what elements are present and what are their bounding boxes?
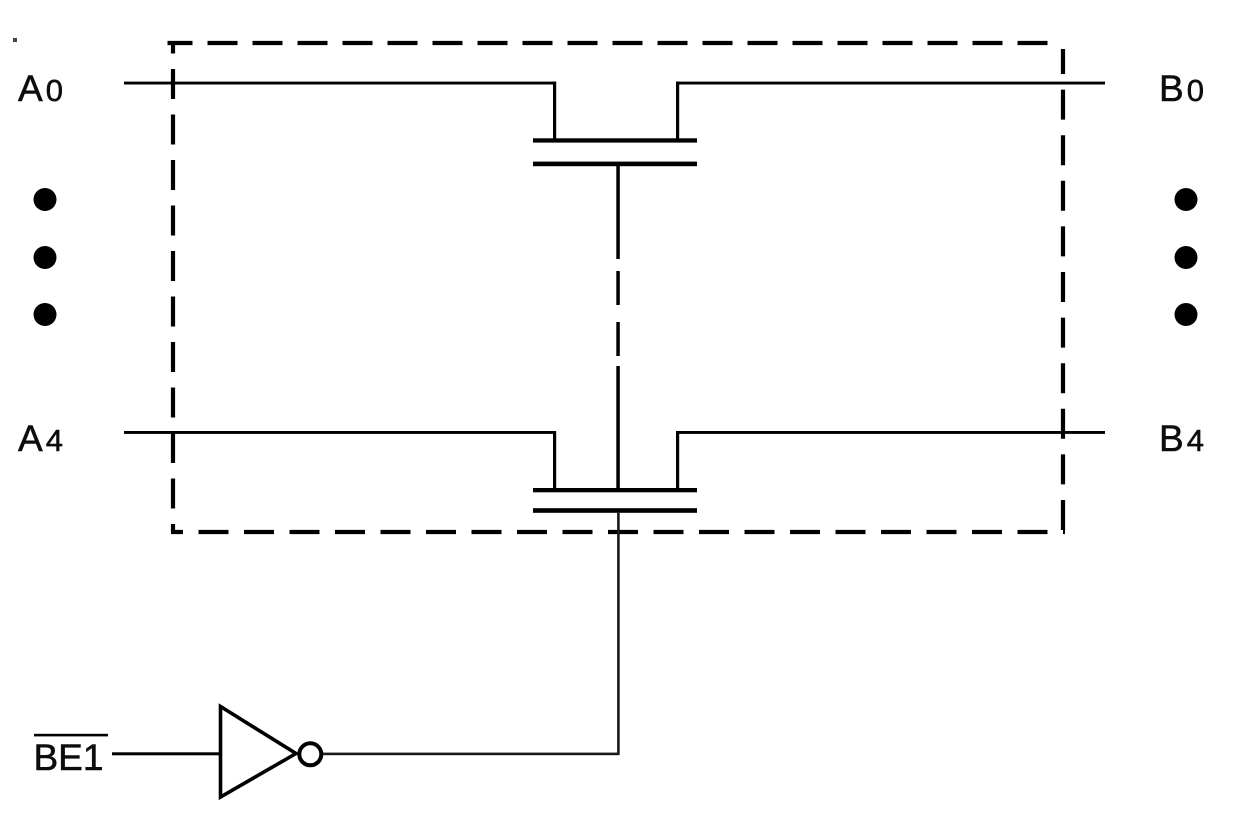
svg-text:A4: A4 [18,418,63,459]
transistor Q2 drain lead (left vertical) [553,431,556,488]
wire: Q2 gate lead down to inverter output [617,513,620,755]
transistor Q1 drain lead (left vertical) [553,82,556,140]
svg-text:B0: B0 [1159,68,1204,109]
inverter U1 bubble [299,743,321,765]
svg-text:B4: B4 [1159,418,1204,459]
wire: Q1 gate lead (solid upper part) [616,166,620,259]
wire: gate bus dash 1 [616,271,620,305]
stray dot top-left [13,38,17,42]
wire A4 (left segment) [124,431,556,434]
wire B4 (right segment) [676,431,1105,434]
inverter U1 triangle [221,707,297,798]
transistor Q2 gate bar [533,508,697,513]
wire: BE1 input to inverter [112,752,220,755]
wire: inverter output horizontal run [323,753,619,756]
wire: gate bus lower solid part into Q2 [616,366,620,488]
transistor Q1 source lead (right vertical) [676,82,679,140]
ellipsis dots left [34,188,57,326]
wire B0 (right segment) [676,82,1105,85]
dashed enclosure box (bus-switch outline) [168,42,1066,533]
transistor Q2 channel bar [533,488,697,492]
svg-text:BE1: BE1 [34,737,104,778]
ellipsis dots right [1175,188,1198,326]
svg-text:A0: A0 [18,68,63,109]
transistor Q1 channel bar [533,138,697,142]
transistor Q1 gate bar [533,162,697,167]
wire A0 (left segment) [124,82,556,85]
transistor Q2 source lead (right vertical) [676,431,679,488]
wire: gate bus dash 2 [616,322,620,356]
